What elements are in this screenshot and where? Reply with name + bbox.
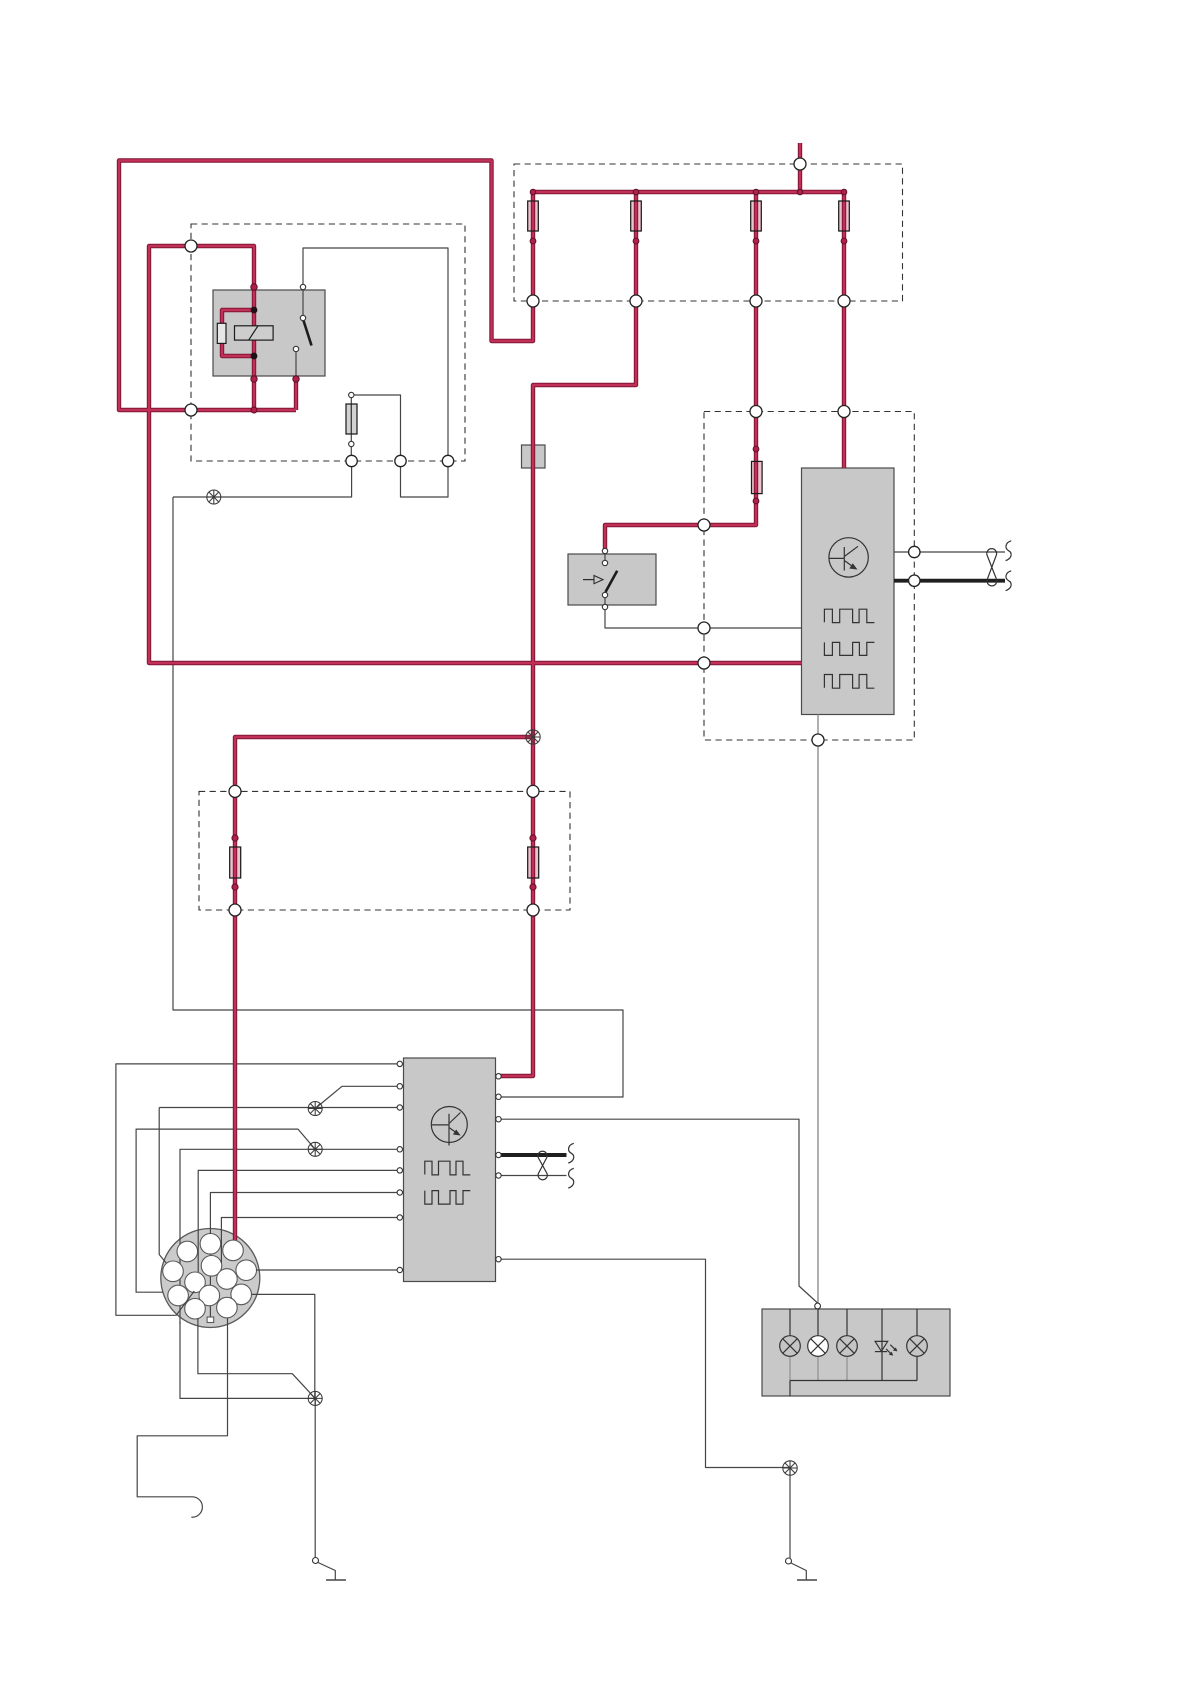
wire: fuse 3 to switch S1 [605,192,756,551]
fuse F2 [631,201,642,231]
fuse F3 [751,201,762,231]
switch S1 outer pins [602,548,607,553]
node supply entry [794,158,806,170]
splice J5 [308,1391,322,1405]
wire: control unit A to warning unit [817,715,819,1304]
node unit A left 1 [698,519,710,531]
wire: control unit B pin L2 to splice [315,1086,400,1108]
relay contact lower [293,346,298,351]
control unit A dashed boundary [704,412,914,741]
node relay box 2 [395,455,406,466]
fuse F5 pins [349,392,354,397]
relay dashed boundary [191,224,465,461]
node C2 [185,404,197,416]
relay lower contact lead [295,352,297,377]
relay coil junction dots [251,307,258,314]
wire: control unit B pin L8 to connector [256,1269,400,1271]
bulb failure warning unit body [762,1309,950,1396]
node fuse out 4 [838,295,850,307]
wire: control unit B pin L4 to splice chain [180,1149,400,1398]
rail junction dot [251,407,257,413]
node unit A left 2 [698,622,710,634]
wire: supply feed stub [798,143,802,192]
wire: control unit B thick signal [496,1153,567,1157]
wire: fuse 4 to control unit A [842,192,846,468]
node middle fuse top-right [527,785,539,797]
node unit A top 2 [838,406,850,418]
wire: control unit B pin L1 to connector [116,1064,400,1315]
fuse F6 (unit A internal) [752,461,763,493]
wire: relay coil through path [252,287,256,379]
splice J6 [783,1461,797,1475]
wire: relay coil loop [222,310,254,356]
connector key [207,1317,214,1323]
splice J3 [308,1102,322,1116]
relay contact blade [303,319,312,346]
unit B right pins [496,1074,501,1262]
wire: connector to splice (bottom) [252,1294,315,1398]
node relay box 1 [346,455,357,466]
wire: fuse F5 loop [351,395,400,461]
wire: relay pins to bottom rail [254,379,296,412]
wire: control unit B pin R3 to warning unit [499,1119,818,1303]
wire: fuse supply bus [533,190,844,194]
wire: control unit A thin signal [894,551,1005,553]
node unit A bottom [812,734,824,746]
red wire bright cores [119,143,844,1240]
fuse F5 (relay circuit, gray) [346,404,357,434]
node fuse out 2 [630,295,642,307]
wire: node C1 to control unit A feed [149,246,802,663]
fuse F7 (middle left) [230,847,241,878]
lamp symbol 1 [780,1336,801,1357]
wire: node C1 to relay coil [191,246,254,287]
node middle fuse bottom-right [527,904,539,916]
wire: splice to left ground [314,1398,316,1558]
lamp symbol 2 (white) [808,1336,829,1357]
control unit A body [802,468,895,715]
transistor symbol unit A [829,538,868,577]
wire: control unit B thin signal [496,1175,567,1177]
splice J1 [207,490,221,504]
wire: splice to right ground [789,1468,791,1559]
fuse F7 pin dots [232,835,238,841]
node unit A right 2 [909,575,920,586]
wire: splice to left middle fuse and connector [235,737,533,1240]
node middle fuse bottom-left [229,904,241,916]
wire: node to control unit B pin R2 [173,461,623,1097]
node fuse out 3 [750,295,762,307]
node relay box 3 [442,455,453,466]
LED symbol [875,1341,898,1355]
left ground G1 [313,1558,347,1581]
fuse lower pin dots [530,238,536,244]
wire under connector holes (pin L6 into key) [209,1232,211,1317]
wire: splice branch to connector [136,1129,315,1292]
switch S1 body [568,554,656,605]
twisted pair symbol unit B [538,1143,574,1188]
transistor symbol unit B [431,1107,467,1146]
relay K1 body [213,290,325,376]
fuse F1 [528,201,539,231]
node unit A top 1 [750,406,762,418]
wire: node U link [401,461,449,497]
node middle fuse top-left [229,785,241,797]
fuse F6 pin dots [753,446,759,452]
wire: control unit B pin L5 to connector [198,1170,400,1272]
wire: control unit B pin L3 to connector [159,1108,400,1263]
wire: control unit A thick signal [894,579,1005,583]
wire: connector to splice diagonal [198,1318,315,1398]
lamp symbol 4 [907,1336,928,1357]
inline connector block [522,445,546,468]
relay contact lead [302,289,304,316]
wire: fuse 2 to control unit B feed [499,192,637,1076]
wire: fuse 1 to relay loop feed [119,161,533,411]
lamp symbol 3 [837,1336,858,1357]
node C1 [185,240,197,252]
fuse box dashed boundary (middle) [199,791,570,910]
twisted pair symbol unit A [987,541,1011,591]
node unit A right 1 [909,546,920,557]
relay coil resistor [217,323,226,343]
relay contact pivot [300,315,305,320]
node unit A left 3 [698,657,710,669]
square wave glyphs unit B [425,1161,471,1175]
unterminated hook end [191,1497,202,1517]
wire: connector to hooked end [137,1318,227,1497]
square wave glyphs unit A [824,609,874,622]
warning unit internal leads [790,1309,917,1396]
splice J2 (red feed) [526,730,540,744]
splice J4 [308,1142,322,1156]
switch S1 symbol [583,551,617,607]
bus junction dots [530,189,536,195]
relay switch top pin [300,284,305,289]
wire: control unit B pin L7 to connector [221,1218,399,1264]
fuse F8 (middle right) [528,847,539,878]
control unit B body [404,1058,496,1282]
wire: control unit B pin L6 to connector [210,1193,399,1235]
wire under connector holes (pin L4 feed-through) [179,1238,181,1324]
right ground G2 [786,1558,818,1580]
wire: switch S1 to control unit A [605,607,802,628]
fuse F8 pin dots [530,835,536,841]
fuse F4 [839,201,850,231]
round 13-pin connector body [161,1229,260,1328]
fuse box dashed boundary (top) [514,164,903,301]
relay pin rings [251,284,257,290]
node fuse out 1 [527,295,539,307]
warning unit top pin [815,1303,821,1309]
wire: control unit B pin R6 to ground splice [499,1259,791,1467]
connector holes [163,1234,257,1319]
relay armature element [235,326,274,340]
wire: relay switch to dashed node [303,248,448,461]
unit B left pins [397,1061,402,1273]
